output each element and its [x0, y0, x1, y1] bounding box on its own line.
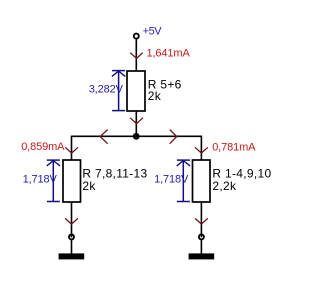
lower-right terminal [199, 234, 204, 239]
current arrow below R5+6 [130, 118, 143, 124]
svg-text:0,781mA: 0,781mA [212, 142, 256, 154]
wire: R5+6 to node [135, 111, 137, 136]
wire: terminal to right ground [200, 240, 202, 254]
wire: R7 to lower-left terminal [71, 202, 73, 234]
wire: bus corner down to R7 [71, 136, 73, 160]
lower-left terminal [69, 234, 74, 239]
node junction [133, 133, 140, 140]
wire: +5V terminal to R5+6 [135, 39, 137, 71]
ground (right) [189, 253, 215, 259]
svg-text:+5V: +5V [143, 26, 163, 38]
svg-text:2k: 2k [82, 179, 96, 193]
wire stub into terminal [200, 234, 202, 238]
svg-text:1,718V: 1,718V [154, 174, 189, 186]
wire stub into terminal [71, 234, 73, 238]
+5V terminal [134, 34, 139, 39]
wire: bus corner down to R1 [200, 136, 202, 160]
current arrow into R7 [65, 147, 78, 153]
voltage arrow V(R1) [177, 160, 190, 201]
current arrow (left, pointing left) [100, 130, 108, 144]
svg-text:1,641mA: 1,641mA [147, 48, 191, 60]
svg-text:2k: 2k [148, 89, 162, 103]
svg-text:3,282V: 3,282V [89, 84, 124, 96]
svg-text:1,718V: 1,718V [23, 174, 58, 186]
current arrow out of R7 [65, 218, 78, 224]
svg-text:0,859mA: 0,859mA [21, 141, 65, 153]
current arrow out of R1 [195, 218, 208, 224]
voltage arrow V(R5+6) [112, 71, 125, 111]
resistor R5+6 [127, 71, 145, 111]
ground (left) [59, 253, 85, 259]
voltage arrow V(R7) [47, 160, 60, 201]
resistor R7,8,11-13 [63, 160, 81, 202]
svg-text:2,2k: 2,2k [212, 179, 237, 193]
resistor R1-4,9,10 [193, 160, 211, 202]
current arrow (right, pointing right) [170, 130, 177, 144]
current arrow on top wire [130, 53, 143, 59]
wire: R1 to lower-right terminal [200, 202, 202, 234]
wire: terminal to left ground [71, 240, 73, 254]
horizontal bus wire [72, 135, 202, 137]
current arrow into R1 [195, 147, 208, 153]
